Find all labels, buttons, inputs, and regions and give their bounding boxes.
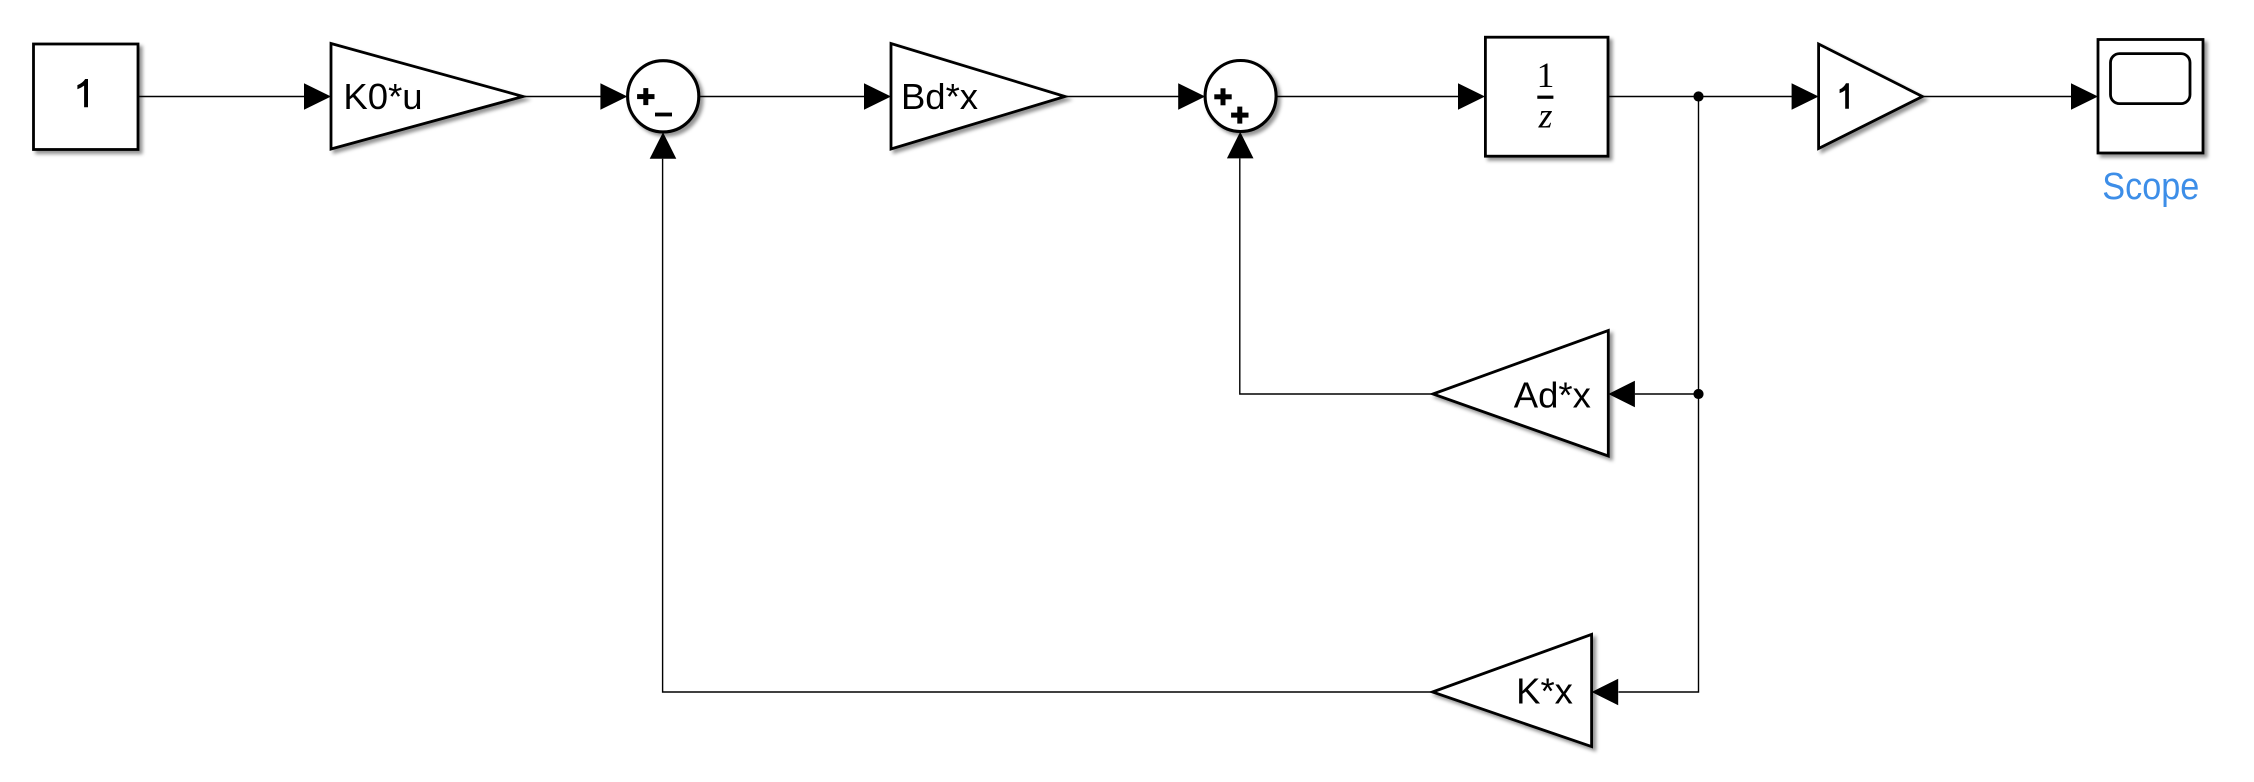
svg-text:K0*u: K0*u [343, 76, 422, 117]
wire Ad*x output to Sum2 bottom [1240, 158, 1433, 394]
arrowhead into gain 1 [1792, 83, 1819, 110]
wire Sum2 to Unit Delay [1276, 96, 1459, 98]
sum block Sum2 plus-plus [1205, 61, 1276, 132]
wire Gain Bd*x to Sum2 [1065, 96, 1179, 98]
arrowhead into scope [2071, 83, 2098, 110]
arrowhead into sum2 left [1178, 83, 1205, 110]
svg-text:Ad*x: Ad*x [1514, 374, 1591, 415]
junction dot at Ad*x input [1693, 389, 1703, 399]
arrowhead into sum1 bottom [650, 132, 677, 159]
junction dot after unit delay [1693, 91, 1703, 101]
arrowhead into gain K0*u [304, 83, 331, 110]
arrowhead into gain K*x [1592, 679, 1619, 706]
gain 1 [1819, 44, 1923, 149]
svg-text:Scope: Scope [2102, 166, 2199, 208]
arrowhead into sum1 left [600, 83, 627, 110]
wire Constant to Gain K0*u [138, 96, 305, 98]
wire Gain K0*u to Sum1 [523, 96, 601, 98]
gain Ad*x pointing left [1433, 331, 1608, 457]
gain K*x pointing left [1433, 634, 1592, 746]
wire vertical feedback from top junction down through Ad*x junction to K*x corner [1619, 97, 1699, 693]
gain Bd*x [891, 44, 1065, 150]
svg-text:Bd*x: Bd*x [901, 76, 978, 117]
arrowhead into unit delay [1458, 83, 1485, 110]
constant block Constant value 1 [34, 44, 139, 150]
arrowhead into gain Bd*x [864, 83, 891, 110]
wire Gain 1 to Scope [1922, 96, 2072, 98]
arrowhead into gain Ad*x [1608, 381, 1635, 408]
unit delay block 1/z [1485, 37, 1608, 156]
wire Sum1 to Gain Bd*x [699, 96, 865, 98]
sum block Sum1 plus-minus [628, 61, 699, 132]
wire junction to Ad*x input [1635, 393, 1699, 395]
wire K*x output to Sum1 bottom [663, 159, 1433, 692]
gain K0*u [331, 44, 523, 150]
wire Unit Delay to Gain 1 [1608, 96, 1792, 98]
svg-text:1: 1 [1537, 55, 1555, 95]
svg-text:K*x: K*x [1516, 671, 1573, 712]
arrowhead into sum2 bottom [1227, 132, 1254, 159]
svg-text:z: z [1538, 96, 1553, 136]
scope block Scope [2098, 40, 2203, 154]
